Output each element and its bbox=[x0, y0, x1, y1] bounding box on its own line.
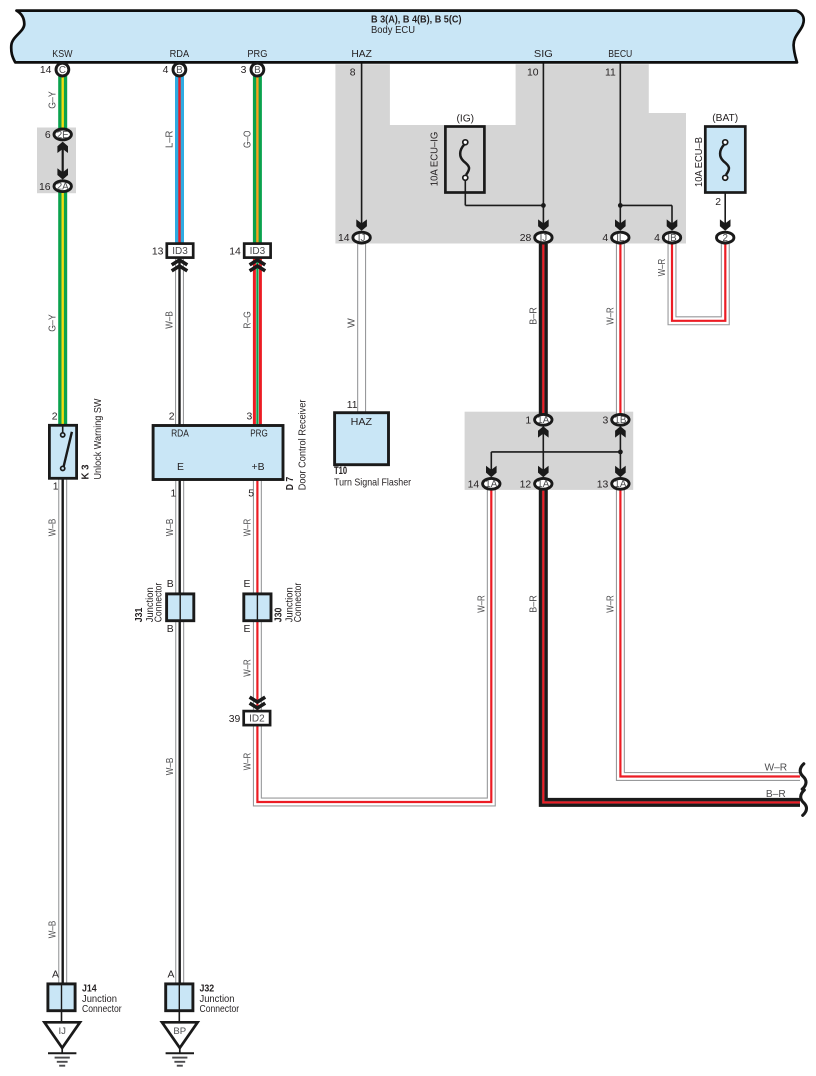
connector ID2-39 bbox=[244, 711, 270, 725]
svg-text:E: E bbox=[243, 579, 250, 590]
arrow into 1-1A bbox=[538, 426, 549, 437]
connector IJ-28 bbox=[535, 232, 552, 243]
svg-text:(IG): (IG) bbox=[457, 114, 475, 125]
svg-text:PRG: PRG bbox=[250, 429, 268, 440]
arrow into 12-1A bbox=[538, 466, 549, 477]
svg-text:Body ECU: Body ECU bbox=[371, 25, 415, 36]
connector IB-4 bbox=[663, 232, 680, 243]
svg-text:G–O: G–O bbox=[242, 130, 253, 148]
wire W-R IL to 1-1B bbox=[616, 244, 625, 414]
svg-text:SIG: SIG bbox=[534, 49, 553, 60]
svg-text:B: B bbox=[254, 65, 261, 76]
svg-text:2: 2 bbox=[52, 411, 58, 422]
svg-text:E: E bbox=[177, 462, 184, 473]
svg-text:13: 13 bbox=[152, 246, 164, 257]
svg-text:W–R: W–R bbox=[476, 595, 487, 613]
svg-text:HAZ: HAZ bbox=[351, 49, 372, 60]
svg-text:W–B: W–B bbox=[48, 921, 59, 939]
fuse 10A ECU-B bbox=[705, 127, 745, 193]
svg-text:J32: J32 bbox=[200, 983, 215, 994]
svg-text:ID2: ID2 bbox=[249, 714, 265, 725]
connector IL-4 bbox=[612, 232, 629, 243]
svg-text:10: 10 bbox=[527, 68, 539, 79]
svg-text:3: 3 bbox=[603, 415, 609, 426]
svg-text:(BAT): (BAT) bbox=[712, 113, 738, 124]
svg-text:4: 4 bbox=[163, 65, 169, 76]
svg-text:D 7: D 7 bbox=[284, 477, 296, 491]
svg-text:G–Y: G–Y bbox=[47, 314, 58, 332]
wire relay bus horizontal bbox=[491, 451, 620, 453]
wire J32 to ground bbox=[178, 1011, 180, 1023]
wire SIG drop bbox=[542, 62, 544, 224]
svg-text:13: 13 bbox=[597, 479, 609, 490]
svg-text:RDA: RDA bbox=[171, 429, 189, 440]
svg-text:3: 3 bbox=[241, 65, 247, 76]
connector 1A-14 bbox=[483, 478, 500, 489]
svg-text:2A: 2A bbox=[57, 182, 69, 193]
svg-text:Unlock Warning SW: Unlock Warning SW bbox=[92, 398, 104, 479]
svg-text:E: E bbox=[243, 624, 250, 635]
svg-text:W–R: W–R bbox=[606, 307, 617, 325]
arrow into IJ bbox=[356, 219, 367, 230]
svg-text:W–R: W–R bbox=[606, 595, 617, 613]
svg-text:+B: +B bbox=[252, 462, 265, 473]
svg-text:A: A bbox=[52, 969, 59, 980]
Body ECU banner bbox=[11, 11, 804, 63]
svg-text:IB: IB bbox=[667, 233, 677, 244]
junction connector J32 bbox=[166, 984, 193, 1011]
svg-text:BP: BP bbox=[173, 1026, 186, 1037]
svg-text:W–B: W–B bbox=[165, 311, 176, 329]
svg-text:PRG: PRG bbox=[247, 49, 267, 60]
svg-text:1B: 1B bbox=[614, 415, 626, 426]
wire 1-1A to bus bbox=[542, 427, 544, 471]
junction connector J30 bbox=[244, 594, 271, 621]
wire BECU drop bbox=[619, 62, 621, 224]
junction dot BECU branch bbox=[618, 203, 623, 208]
connector pin 3 B bbox=[251, 63, 264, 76]
connector 2 bbox=[717, 232, 734, 243]
svg-text:R–G: R–G bbox=[242, 311, 253, 329]
svg-text:28: 28 bbox=[520, 233, 532, 244]
svg-text:Connector: Connector bbox=[154, 582, 165, 622]
connector 2E bbox=[54, 129, 71, 140]
ground IJ bbox=[44, 1022, 80, 1065]
svg-text:W–R: W–R bbox=[243, 659, 254, 677]
svg-text:B–R: B–R bbox=[766, 789, 786, 800]
svg-text:39: 39 bbox=[229, 714, 241, 725]
svg-text:W: W bbox=[347, 318, 358, 328]
svg-text:Door Control Receiver: Door Control Receiver bbox=[297, 399, 309, 490]
connector pin 4 B bbox=[173, 63, 186, 76]
svg-text:1A: 1A bbox=[537, 479, 549, 490]
svg-text:IJ: IJ bbox=[58, 1026, 66, 1037]
ground BP bbox=[162, 1022, 198, 1065]
svg-text:2: 2 bbox=[722, 233, 727, 244]
wire W-R D7 +B to ID2 bbox=[253, 478, 262, 711]
svg-text:4: 4 bbox=[654, 233, 660, 244]
wire R-G ID3 to D7 PRG bbox=[253, 257, 262, 426]
shade region top-middle bbox=[335, 64, 686, 243]
svg-text:J31: J31 bbox=[134, 607, 145, 622]
wire HAZ drop bbox=[361, 62, 363, 224]
svg-text:W–R: W–R bbox=[243, 519, 254, 537]
arrow into IJ-28 bbox=[538, 219, 549, 230]
svg-text:Connector: Connector bbox=[293, 582, 304, 622]
double arrow 2E-2A bbox=[62, 146, 64, 175]
svg-text:14: 14 bbox=[40, 65, 52, 76]
svg-text:Connector: Connector bbox=[82, 1004, 122, 1015]
chevron ID2 bbox=[250, 703, 266, 708]
arrow into 14-1A bbox=[486, 466, 497, 477]
svg-text:B: B bbox=[167, 579, 174, 590]
wire B-R 12-1A to right edge bbox=[543, 489, 800, 802]
wire W-R 13-1A to right edge bbox=[620, 489, 800, 777]
svg-text:14: 14 bbox=[468, 479, 480, 490]
svg-text:ID3: ID3 bbox=[250, 246, 266, 257]
svg-text:B: B bbox=[176, 65, 183, 76]
connector pin 14 C bbox=[56, 63, 69, 76]
junction dot SIG/IG bbox=[541, 203, 546, 208]
svg-text:B–R: B–R bbox=[529, 595, 540, 613]
svg-text:1: 1 bbox=[53, 482, 59, 493]
connector 1B-3 bbox=[612, 414, 629, 425]
svg-text:Turn Signal Flasher: Turn Signal Flasher bbox=[334, 477, 412, 488]
wire W-R IB to fuse 2 bbox=[672, 244, 725, 321]
arrow into IB bbox=[667, 219, 678, 230]
wire G-Y KSW upper bbox=[58, 75, 67, 129]
arrow into IL bbox=[615, 219, 626, 230]
junction connector J14 bbox=[48, 984, 75, 1011]
wire bus to 14-1A bbox=[490, 452, 492, 470]
svg-text:1A: 1A bbox=[537, 415, 549, 426]
svg-text:IJ: IJ bbox=[540, 233, 548, 244]
connector ID3-14 bbox=[244, 244, 270, 258]
svg-text:J14: J14 bbox=[82, 983, 97, 994]
junction connector J31 bbox=[167, 594, 194, 621]
svg-text:W–R: W–R bbox=[764, 763, 787, 774]
svg-text:1: 1 bbox=[171, 488, 177, 499]
wire branch BECU to IB bbox=[620, 204, 672, 206]
svg-text:W–B: W–B bbox=[48, 519, 59, 537]
wire G-Y KSW lower bbox=[58, 191, 67, 426]
wire W-B D7 E to J32 bbox=[175, 478, 184, 985]
connector IJ-14 bbox=[353, 232, 370, 243]
connector 1A-12 bbox=[535, 478, 552, 489]
svg-text:3: 3 bbox=[247, 411, 253, 422]
svg-text:KSW: KSW bbox=[52, 49, 72, 60]
svg-text:B 3(A), B 4(B), B 5(C): B 3(A), B 4(B), B 5(C) bbox=[371, 15, 462, 26]
svg-text:B: B bbox=[167, 624, 174, 635]
svg-text:C: C bbox=[59, 65, 66, 76]
wire L-R RDA bbox=[175, 75, 184, 244]
svg-text:11: 11 bbox=[347, 400, 358, 411]
svg-text:B–R: B–R bbox=[529, 307, 540, 325]
wire W-B K3 to J14 bbox=[58, 478, 67, 985]
svg-text:2: 2 bbox=[715, 197, 721, 208]
junction dot relay bus bbox=[618, 450, 623, 455]
svg-text:4: 4 bbox=[602, 233, 608, 244]
connector 1A-1 bbox=[535, 414, 552, 425]
arrow into 13-1A bbox=[615, 466, 626, 477]
svg-text:10A ECU–IG: 10A ECU–IG bbox=[430, 132, 441, 187]
chevron ID3-14 bbox=[250, 260, 266, 265]
svg-text:T10: T10 bbox=[334, 465, 347, 477]
svg-text:14: 14 bbox=[338, 233, 350, 244]
svg-text:J30: J30 bbox=[274, 607, 285, 622]
svg-text:6: 6 bbox=[45, 130, 51, 141]
shade region KSW connectors bbox=[37, 128, 76, 194]
shade region flasher relay block bbox=[465, 412, 634, 490]
svg-text:IL: IL bbox=[616, 233, 625, 244]
arrow into 3-1B bbox=[615, 426, 626, 437]
svg-text:1A: 1A bbox=[485, 479, 497, 490]
svg-text:W–R: W–R bbox=[243, 753, 254, 771]
svg-text:10A ECU–B: 10A ECU–B bbox=[694, 137, 705, 187]
svg-text:HAZ: HAZ bbox=[351, 417, 373, 428]
svg-text:A: A bbox=[167, 969, 174, 980]
wire BAT fuse drop bbox=[724, 181, 726, 224]
svg-text:RDA: RDA bbox=[170, 49, 190, 60]
svg-text:5: 5 bbox=[248, 488, 254, 499]
continuation mark B-R bbox=[801, 790, 807, 815]
wire B-R IJ to 1-1A bbox=[539, 244, 548, 414]
svg-text:11: 11 bbox=[605, 68, 616, 79]
svg-text:14: 14 bbox=[229, 246, 241, 257]
svg-text:IJ: IJ bbox=[358, 233, 366, 244]
svg-text:2E: 2E bbox=[57, 130, 69, 141]
wire W-R ID2 to flasher 14-1A bbox=[257, 489, 491, 802]
wire from IG fuse bbox=[464, 180, 466, 205]
svg-text:2: 2 bbox=[169, 411, 175, 422]
continuation mark W-R bbox=[800, 764, 806, 789]
connector 2A bbox=[54, 181, 71, 192]
svg-text:W–R: W–R bbox=[657, 259, 668, 277]
wire IG fuse to SIG bbox=[465, 204, 543, 206]
svg-text:1: 1 bbox=[525, 415, 531, 426]
wire W-B ID3 to D7 RDA bbox=[175, 257, 184, 426]
connector ID3-13 bbox=[167, 244, 193, 258]
relay T10 Turn Signal Flasher bbox=[335, 413, 389, 465]
relay D7 Door Control Receiver bbox=[153, 426, 283, 480]
connector 1A-13 bbox=[612, 478, 629, 489]
svg-text:L–R: L–R bbox=[164, 131, 175, 149]
svg-text:K 3: K 3 bbox=[80, 464, 92, 479]
chevron ID3-13 bbox=[172, 260, 188, 265]
svg-text:BECU: BECU bbox=[608, 49, 632, 60]
svg-text:Connector: Connector bbox=[200, 1004, 240, 1015]
wire W wire IJ to T10 bbox=[357, 244, 366, 414]
wire IB drop bbox=[671, 205, 673, 224]
svg-text:ID3: ID3 bbox=[172, 246, 188, 257]
svg-text:W–B: W–B bbox=[165, 519, 176, 537]
wire G-O PRG bbox=[253, 75, 262, 244]
svg-text:8: 8 bbox=[350, 68, 356, 79]
wire J14 to ground bbox=[61, 1011, 63, 1023]
arrow into 2 bbox=[720, 219, 731, 230]
switch K3 Unlock Warning SW bbox=[49, 425, 76, 478]
fuse 10A ECU-IG bbox=[445, 127, 484, 193]
svg-text:1A: 1A bbox=[614, 479, 626, 490]
svg-text:16: 16 bbox=[39, 182, 51, 193]
wire 3-1B to bus bbox=[619, 427, 621, 471]
svg-text:W–B: W–B bbox=[165, 758, 176, 776]
svg-text:12: 12 bbox=[520, 479, 532, 490]
svg-text:G–Y: G–Y bbox=[47, 91, 58, 109]
